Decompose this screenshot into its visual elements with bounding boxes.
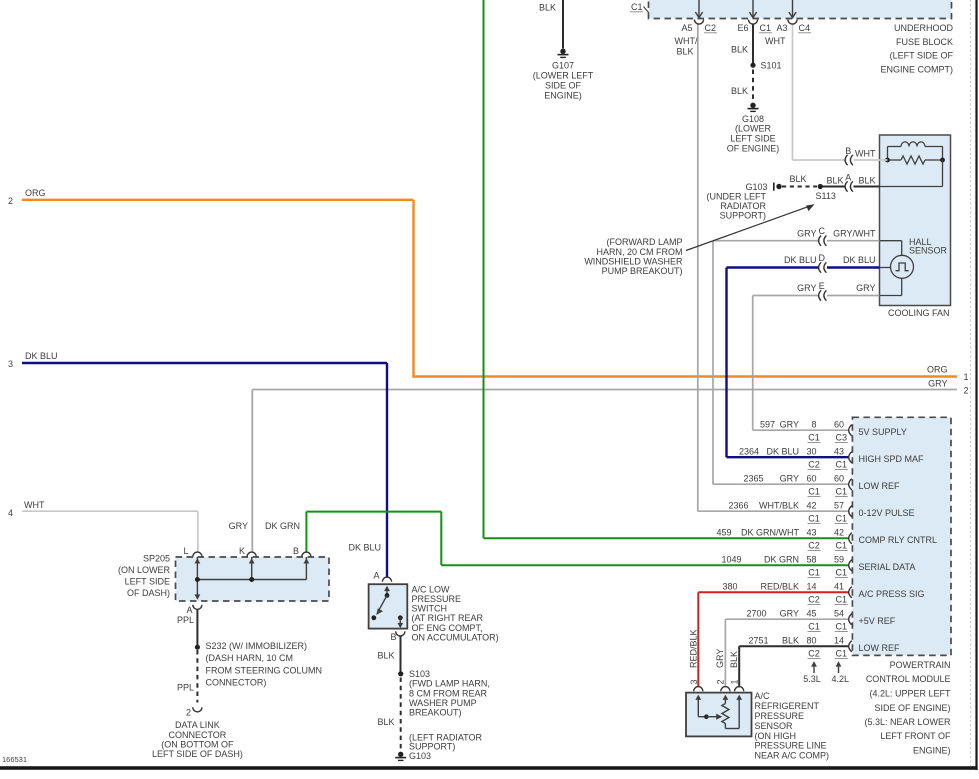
fan motor winding L1 and resistor R1 bbox=[887, 147, 889, 161]
svg-text:SUPPORT): SUPPORT) bbox=[720, 210, 766, 220]
svg-text:14: 14 bbox=[806, 582, 816, 592]
svg-text:(ON HIGH: (ON HIGH bbox=[755, 731, 797, 741]
svg-text:WHT/: WHT/ bbox=[675, 36, 698, 46]
svg-text:GRY: GRY bbox=[715, 649, 725, 668]
svg-text:BLK: BLK bbox=[731, 44, 748, 54]
sensor internal potentiometer bbox=[695, 695, 701, 700]
svg-text:C4: C4 bbox=[799, 23, 811, 33]
svg-text:POWERTRAIN: POWERTRAIN bbox=[890, 660, 951, 670]
svg-text:DK BLU: DK BLU bbox=[25, 351, 58, 361]
svg-text:A: A bbox=[186, 605, 192, 615]
PCM bottom connectors 5.3L/4.2L arrows bbox=[813, 664, 815, 674]
A/C low pressure switch S1 box bbox=[369, 584, 408, 628]
powertrain control module box bbox=[852, 417, 951, 655]
svg-text:HIGH SPD MAF: HIGH SPD MAF bbox=[859, 454, 925, 464]
svg-text:BLK: BLK bbox=[729, 651, 739, 668]
svg-text:3: 3 bbox=[8, 359, 13, 369]
fuse block pin A3/C4 connector bbox=[788, 20, 797, 25]
svg-text:(FWD LAMP HARN,: (FWD LAMP HARN, bbox=[409, 679, 490, 689]
A/C refrigerant pressure sensor B1 box bbox=[686, 693, 752, 737]
svg-text:DK BLU: DK BLU bbox=[766, 447, 799, 457]
svg-text:A/C LOW: A/C LOW bbox=[412, 584, 451, 594]
svg-text:LEFT SIDE: LEFT SIDE bbox=[730, 134, 775, 144]
svg-text:BLK: BLK bbox=[789, 174, 806, 184]
svg-text:C1: C1 bbox=[836, 541, 848, 551]
svg-text:SERIAL DATA: SERIAL DATA bbox=[859, 562, 916, 572]
svg-text:1: 1 bbox=[964, 372, 969, 382]
svg-text:UNDERHOOD: UNDERHOOD bbox=[894, 23, 954, 33]
wire ORG circuit 2 from left margin bbox=[22, 199, 414, 201]
svg-text:OF ENGINE): OF ENGINE) bbox=[727, 143, 780, 153]
wire RED/BLK A/C press signal from PCM to pressure sensor pin 3 bbox=[698, 591, 849, 593]
svg-text:2364: 2364 bbox=[739, 447, 759, 457]
svg-text:14: 14 bbox=[834, 636, 844, 646]
svg-text:C1: C1 bbox=[836, 514, 848, 524]
svg-text:59: 59 bbox=[834, 555, 844, 565]
svg-text:2: 2 bbox=[716, 679, 726, 684]
svg-text:RED/BLK: RED/BLK bbox=[689, 629, 699, 668]
svg-text:43: 43 bbox=[834, 447, 844, 457]
svg-text:57: 57 bbox=[834, 501, 844, 511]
SP205 pin A connector bbox=[193, 605, 202, 610]
svg-text:PRESSURE: PRESSURE bbox=[755, 711, 805, 721]
svg-text:COOLING FAN: COOLING FAN bbox=[888, 308, 950, 318]
svg-text:A3: A3 bbox=[776, 23, 787, 33]
svg-text:(FORWARD LAMP: (FORWARD LAMP bbox=[606, 237, 682, 247]
svg-text:597: 597 bbox=[760, 420, 775, 430]
svg-text:A/C: A/C bbox=[755, 691, 771, 701]
svg-text:3: 3 bbox=[689, 679, 699, 684]
svg-text:60: 60 bbox=[834, 420, 844, 430]
svg-text:PRESSURE LINE: PRESSURE LINE bbox=[755, 741, 827, 751]
svg-text:S103: S103 bbox=[409, 669, 430, 679]
svg-text:WHT: WHT bbox=[24, 500, 45, 510]
svg-text:2751: 2751 bbox=[748, 636, 768, 646]
svg-text:(4.2L: UPPER LEFT: (4.2L: UPPER LEFT bbox=[869, 689, 951, 699]
splice pack SP205 box bbox=[176, 557, 330, 601]
svg-text:43: 43 bbox=[806, 528, 816, 538]
svg-text:DK GRN: DK GRN bbox=[764, 555, 799, 565]
svg-text:E6: E6 bbox=[737, 23, 748, 33]
svg-text:C1: C1 bbox=[836, 622, 848, 632]
svg-text:ENGINE COMPT): ENGINE COMPT) bbox=[880, 64, 953, 74]
svg-text:LOW REF: LOW REF bbox=[859, 643, 901, 653]
svg-text:60: 60 bbox=[834, 474, 844, 484]
splice S232 bbox=[195, 645, 200, 650]
svg-text:8: 8 bbox=[811, 420, 816, 430]
svg-text:GRY: GRY bbox=[928, 379, 947, 389]
svg-text:1: 1 bbox=[730, 679, 740, 684]
svg-text:WHT/BLK: WHT/BLK bbox=[759, 501, 799, 511]
svg-text:S101: S101 bbox=[761, 61, 782, 71]
svg-text:(AT RIGHT REAR: (AT RIGHT REAR bbox=[412, 613, 484, 623]
fuse block pin A5/C2 connector bbox=[694, 20, 703, 25]
splice S103 bbox=[398, 671, 403, 676]
wire WHT circuit 4 from left margin bbox=[22, 510, 198, 512]
svg-text:4.2L: 4.2L bbox=[832, 674, 850, 684]
svg-text:K: K bbox=[239, 546, 245, 556]
svg-text:42: 42 bbox=[806, 501, 816, 511]
svg-text:RED/BLK: RED/BLK bbox=[760, 582, 799, 592]
wire DK GRN serial data from splice SP205 pin B to PCM bbox=[306, 511, 441, 513]
svg-text:E: E bbox=[819, 281, 825, 291]
wire WHT from fuse block C4 to cooling fan pin B bbox=[792, 24, 794, 161]
svg-text:L: L bbox=[183, 546, 188, 556]
wire BLK dashed from ground G103 to S113 bbox=[782, 186, 817, 188]
svg-text:5V SUPPLY: 5V SUPPLY bbox=[859, 427, 907, 437]
svg-text:GRY: GRY bbox=[797, 228, 816, 238]
svg-text:C1: C1 bbox=[760, 23, 772, 33]
svg-text:B: B bbox=[845, 146, 851, 156]
svg-text:GRY/WHT: GRY/WHT bbox=[833, 228, 876, 238]
svg-text:C1: C1 bbox=[808, 514, 820, 524]
svg-text:GRY: GRY bbox=[780, 474, 799, 484]
svg-text:LEFT SIDE: LEFT SIDE bbox=[125, 577, 170, 587]
svg-text:RADIATOR: RADIATOR bbox=[720, 201, 766, 211]
svg-text:C1: C1 bbox=[836, 649, 848, 659]
svg-text:4: 4 bbox=[8, 508, 13, 518]
fuse block output arrow A5 bbox=[698, 0, 700, 18]
svg-text:S232 (W/ IMMOBILIZER): S232 (W/ IMMOBILIZER) bbox=[206, 641, 308, 651]
svg-text:SUPPORT): SUPPORT) bbox=[409, 741, 455, 751]
svg-text:BLK: BLK bbox=[858, 176, 875, 186]
svg-text:WHT: WHT bbox=[765, 36, 786, 46]
SP205 pin B connector bbox=[302, 552, 311, 557]
svg-text:C2: C2 bbox=[808, 541, 820, 551]
svg-text:(UNDER LEFT: (UNDER LEFT bbox=[706, 191, 766, 201]
svg-text:C3: C3 bbox=[836, 433, 848, 443]
page right border bbox=[975, 0, 977, 770]
ground G103 lug bbox=[773, 183, 775, 191]
svg-text:PUMP BREAKOUT): PUMP BREAKOUT) bbox=[602, 266, 683, 276]
svg-text:SENSOR: SENSOR bbox=[909, 246, 948, 256]
wire GRY 5V ref from PCM to pressure sensor pin 2 bbox=[725, 618, 849, 620]
svg-text:C: C bbox=[819, 226, 826, 236]
wire DK BLU from fan pin D to PCM high speed MAF bbox=[727, 266, 819, 268]
svg-text:C1: C1 bbox=[836, 568, 848, 578]
svg-text:PRESSURE: PRESSURE bbox=[412, 594, 462, 604]
splice S113 bbox=[818, 184, 823, 189]
wire BLK low ref from PCM to pressure sensor pin 1 bbox=[739, 645, 849, 647]
svg-text:A: A bbox=[373, 570, 379, 580]
svg-text:WINDSHIELD WASHER: WINDSHIELD WASHER bbox=[584, 257, 683, 267]
wire GRY from fan pin E to PCM 5V supply bbox=[753, 295, 819, 297]
scan artifact dotted line near right edge bbox=[970, 0, 972, 766]
svg-text:GRY: GRY bbox=[780, 420, 799, 430]
svg-text:41: 41 bbox=[834, 582, 844, 592]
svg-text:HARN, 20 CM FROM: HARN, 20 CM FROM bbox=[596, 247, 682, 257]
SP205 bus junction K bbox=[249, 577, 254, 582]
svg-text:OF DASH): OF DASH) bbox=[127, 588, 170, 598]
svg-text:LEFT FRONT OF: LEFT FRONT OF bbox=[880, 731, 951, 741]
underhood fuse block connector box bbox=[649, 0, 952, 19]
switch pin B connector bbox=[396, 631, 405, 636]
switch S1 contacts bbox=[384, 586, 390, 591]
svg-text:5.3L: 5.3L bbox=[803, 674, 821, 684]
svg-text:(DASH HARN, 10 CM: (DASH HARN, 10 CM bbox=[206, 653, 294, 663]
svg-text:C2: C2 bbox=[705, 23, 717, 33]
svg-text:30: 30 bbox=[806, 447, 816, 457]
svg-text:A/C PRESS SIG: A/C PRESS SIG bbox=[859, 589, 925, 599]
splice S101 bbox=[750, 63, 755, 68]
svg-text:SIDE OF: SIDE OF bbox=[545, 81, 582, 91]
svg-text:ORG: ORG bbox=[25, 188, 46, 198]
ground G108 bbox=[750, 103, 755, 108]
svg-text:(ON BOTTOM OF: (ON BOTTOM OF bbox=[161, 739, 234, 749]
svg-text:FROM STEERING COLUMN: FROM STEERING COLUMN bbox=[206, 665, 323, 675]
svg-text:GRY: GRY bbox=[856, 283, 875, 293]
svg-text:ORG: ORG bbox=[927, 364, 948, 374]
fuse block output arrow E6 bbox=[752, 0, 754, 18]
wire DK GRN/WHT comp relay control from top to PCM bbox=[483, 0, 485, 538]
wire PPL dashed from S232 to data link connector bbox=[196, 650, 198, 703]
svg-text:C1: C1 bbox=[836, 487, 848, 497]
svg-text:SENSOR: SENSOR bbox=[755, 721, 794, 731]
svg-text:BLK: BLK bbox=[826, 176, 843, 186]
svg-text:DK GRN: DK GRN bbox=[265, 521, 300, 531]
svg-text:BLK: BLK bbox=[539, 2, 556, 12]
svg-text:2366: 2366 bbox=[728, 501, 748, 511]
svg-text:(5.3L: NEAR LOWER: (5.3L: NEAR LOWER bbox=[864, 717, 951, 727]
svg-text:C1: C1 bbox=[808, 622, 820, 632]
svg-text:ENGINE): ENGINE) bbox=[544, 91, 582, 101]
svg-text:SIDE OF ENGINE): SIDE OF ENGINE) bbox=[874, 703, 950, 713]
svg-text:GRY: GRY bbox=[797, 283, 816, 293]
svg-text:54: 54 bbox=[834, 609, 844, 619]
svg-text:A: A bbox=[845, 173, 851, 183]
wire GRY circuit 2 to right margin bbox=[252, 389, 957, 391]
svg-text:GRY: GRY bbox=[780, 609, 799, 619]
svg-text:OF ENG COMPT,: OF ENG COMPT, bbox=[412, 623, 483, 633]
fan motor node left bbox=[885, 158, 890, 163]
fuse block output arrow A3 bbox=[792, 0, 794, 18]
svg-text:58: 58 bbox=[806, 555, 816, 565]
svg-text:80: 80 bbox=[806, 636, 816, 646]
svg-text:WHT: WHT bbox=[855, 149, 876, 159]
svg-text:DK BLU: DK BLU bbox=[843, 255, 876, 265]
svg-text:REFRIGERENT: REFRIGERENT bbox=[755, 701, 820, 711]
svg-text:BLK: BLK bbox=[377, 717, 394, 727]
ground G107 bbox=[560, 49, 565, 54]
wire DK BLU circuit 3 from left margin bbox=[22, 362, 387, 364]
svg-text:(ON LOWER: (ON LOWER bbox=[118, 565, 171, 575]
svg-text:C1: C1 bbox=[808, 433, 820, 443]
svg-text:0-12V PULSE: 0-12V PULSE bbox=[859, 508, 915, 518]
fan motor node right bbox=[940, 158, 945, 163]
SP205 pin L connector bbox=[193, 552, 202, 557]
svg-text:(LOWER LEFT: (LOWER LEFT bbox=[533, 71, 594, 81]
svg-text:C1: C1 bbox=[808, 487, 820, 497]
hall sensor U2 bbox=[891, 255, 914, 278]
svg-text:2: 2 bbox=[964, 385, 969, 395]
svg-text:A5: A5 bbox=[681, 23, 692, 33]
svg-text:C1: C1 bbox=[808, 568, 820, 578]
SP205 bus junction L bbox=[195, 577, 200, 582]
ground G103 at radiator support bbox=[398, 752, 403, 757]
wire BLK dashed from S101 to ground G108 bbox=[752, 70, 754, 101]
wire BLK from splice S113 to fan pin A bbox=[820, 186, 845, 188]
svg-text:G107: G107 bbox=[552, 61, 574, 71]
svg-text:C1: C1 bbox=[631, 2, 643, 12]
svg-text:1049: 1049 bbox=[721, 555, 741, 565]
A/C low pressure switch pin A connector bbox=[382, 577, 391, 582]
svg-text:2365: 2365 bbox=[743, 474, 763, 484]
SP205 pin K connector bbox=[247, 552, 256, 557]
svg-text:PPL: PPL bbox=[177, 615, 194, 625]
svg-text:2: 2 bbox=[8, 196, 13, 206]
svg-text:G103: G103 bbox=[409, 751, 431, 761]
svg-text:LOW REF: LOW REF bbox=[859, 481, 901, 491]
svg-text:B: B bbox=[390, 632, 396, 642]
fuse block pin E6/C1 connector bbox=[748, 20, 757, 25]
svg-text:SWITCH: SWITCH bbox=[412, 604, 448, 614]
svg-text:C2: C2 bbox=[808, 649, 820, 659]
svg-text:COMP RLY CNTRL: COMP RLY CNTRL bbox=[859, 535, 938, 545]
svg-text:DK GRN/WHT: DK GRN/WHT bbox=[741, 528, 799, 538]
svg-text:G108: G108 bbox=[742, 114, 764, 124]
svg-text:C2: C2 bbox=[808, 460, 820, 470]
svg-text:NEAR A/C COMP): NEAR A/C COMP) bbox=[755, 751, 830, 761]
svg-text:CONTROL MODULE: CONTROL MODULE bbox=[866, 674, 951, 684]
svg-text:C1: C1 bbox=[836, 460, 848, 470]
wire BLK dashed from S103 to ground G103 bbox=[400, 678, 402, 751]
svg-text:DATA LINK: DATA LINK bbox=[175, 720, 220, 730]
sensor pin 3 connector bbox=[694, 687, 703, 692]
wire WHT/BLK from fuse block C2 to PCM 0-12V pulse bbox=[697, 24, 699, 512]
svg-text:2: 2 bbox=[186, 707, 191, 717]
svg-text:166531: 166531 bbox=[2, 755, 27, 764]
svg-text:BLK: BLK bbox=[731, 86, 748, 96]
svg-text:SP205: SP205 bbox=[143, 553, 170, 563]
svg-text:45: 45 bbox=[806, 609, 816, 619]
svg-text:BREAKOUT): BREAKOUT) bbox=[409, 708, 462, 718]
sensor pin 2 connector bbox=[721, 687, 730, 692]
svg-text:+5V REF: +5V REF bbox=[859, 616, 896, 626]
svg-text:380: 380 bbox=[722, 582, 737, 592]
svg-text:CONNECTOR): CONNECTOR) bbox=[206, 677, 267, 687]
svg-text:S113: S113 bbox=[816, 191, 836, 201]
svg-text:DK BLU: DK BLU bbox=[784, 255, 817, 265]
svg-text:G103: G103 bbox=[745, 182, 767, 192]
svg-text:(LEFT SIDE OF: (LEFT SIDE OF bbox=[890, 51, 954, 61]
svg-text:C2: C2 bbox=[808, 595, 820, 605]
svg-text:60: 60 bbox=[806, 474, 816, 484]
svg-text:2700: 2700 bbox=[746, 609, 766, 619]
svg-text:ENGINE): ENGINE) bbox=[913, 745, 951, 755]
wire GRY from fan pin C to PCM low ref bbox=[713, 240, 819, 242]
cooling fan motor box bbox=[880, 135, 951, 306]
svg-text:BLK: BLK bbox=[782, 636, 799, 646]
svg-text:FUSE BLOCK: FUSE BLOCK bbox=[896, 37, 953, 47]
svg-text:GRY: GRY bbox=[229, 521, 248, 531]
svg-text:459: 459 bbox=[716, 528, 731, 538]
sensor pin 1 connector bbox=[735, 687, 744, 692]
svg-text:DK BLU: DK BLU bbox=[348, 543, 381, 553]
page bottom border bbox=[0, 766, 978, 770]
SP205 internal bus bbox=[196, 557, 198, 599]
svg-text:B: B bbox=[293, 546, 299, 556]
svg-text:LEFT SIDE OF DASH): LEFT SIDE OF DASH) bbox=[152, 749, 243, 759]
svg-text:ON ACCUMULATOR): ON ACCUMULATOR) bbox=[412, 632, 499, 642]
svg-text:WASHER PUMP: WASHER PUMP bbox=[409, 698, 477, 708]
svg-text:BLK: BLK bbox=[377, 651, 394, 661]
svg-text:D: D bbox=[819, 253, 826, 263]
svg-text:PPL: PPL bbox=[177, 683, 194, 693]
svg-text:BLK: BLK bbox=[676, 47, 693, 57]
svg-text:(LOWER: (LOWER bbox=[735, 124, 772, 134]
svg-text:42: 42 bbox=[834, 528, 844, 538]
svg-text:C1: C1 bbox=[836, 595, 848, 605]
